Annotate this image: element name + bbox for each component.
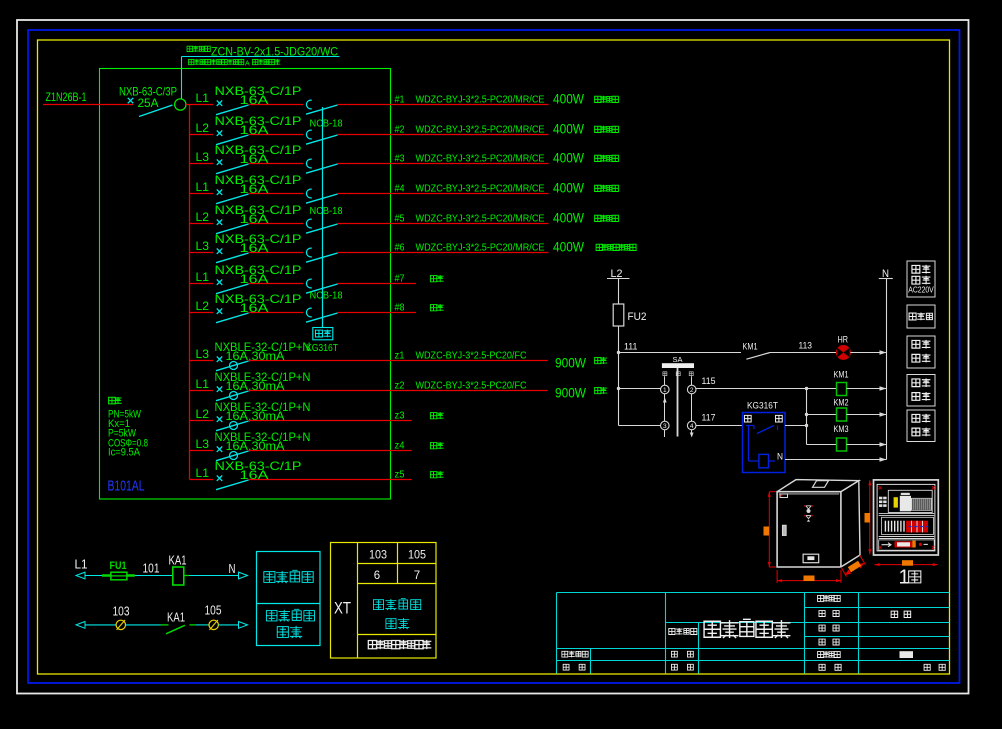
label load calculation summary	[108, 397, 148, 459]
wire branch z3 segment b	[249, 420, 412, 422]
bus N vertical	[886, 279, 888, 460]
svg-text:7: 7	[414, 570, 420, 582]
title label: drawing size	[819, 639, 839, 645]
title value: electrical	[891, 611, 911, 617]
terminal 103 (yellow)	[116, 620, 125, 630]
wire branch #7 segment c	[338, 283, 417, 285]
svg-text:XT: XT	[334, 599, 351, 618]
svg-text:1: 1	[899, 567, 910, 589]
svg-text:L1: L1	[196, 93, 210, 105]
svg-text:4: 4	[690, 423, 694, 430]
breaker QF3 NXB-63-C/1P 16A (branch #3)	[196, 143, 302, 174]
panel enclosure B101AL (green boundary box)	[100, 69, 391, 500]
wire branch #5 segment b	[249, 223, 304, 225]
function label box: manual control	[907, 375, 935, 407]
wire branch #8 segment b	[249, 312, 304, 314]
wire branch #1 segment b	[249, 104, 304, 106]
contactor NCB-18 pole (branch #6)	[306, 248, 338, 262]
wire to KM3 coil	[807, 444, 837, 446]
wire branch #6 segment a	[190, 252, 214, 254]
title label: review	[563, 664, 585, 670]
svg-text:z1: z1	[395, 350, 405, 361]
terminal 105 (yellow)	[209, 620, 218, 630]
label spare branch #8	[430, 305, 436, 311]
wire branch #3 segment c	[338, 163, 549, 165]
wire branch #5 segment a	[190, 223, 214, 225]
svg-text:KA1: KA1	[169, 554, 187, 568]
label load name branch #4	[595, 185, 601, 191]
svg-text:105: 105	[408, 550, 426, 562]
function label box: control power AC220V	[907, 261, 935, 297]
svg-text:#4: #4	[395, 183, 405, 194]
function label box: run indication	[907, 336, 935, 368]
panel corner marks	[879, 486, 936, 549]
wire L2 drop to fuse	[618, 279, 620, 305]
svg-text:#5: #5	[395, 213, 405, 224]
svg-text:FU2: FU2	[628, 311, 647, 323]
wire KM1 contact to node 113	[770, 352, 837, 354]
contactor NCB-18 pole (branch #5)	[306, 219, 338, 233]
breaker Qz2 NXBLE-32-C/1P+N 16A,30mA (branch z2)	[196, 370, 311, 401]
contactor NCB-18 pole (branch #2)	[306, 130, 338, 144]
svg-text:L1: L1	[75, 557, 88, 571]
wire branch #8 segment a	[190, 312, 214, 314]
wire branch #3 segment a	[190, 163, 214, 165]
title label: drafted	[671, 651, 693, 657]
title block grid	[557, 593, 950, 674]
wire line 101 left with arrow	[76, 572, 85, 579]
bus: vertical distribution busbar	[189, 105, 191, 480]
svg-text:NCB-18: NCB-18	[310, 118, 343, 129]
wire branch #6 segment b	[249, 252, 304, 254]
title value: project name (Mou Shang Ye Guang Chang)	[704, 621, 720, 637]
svg-text:L3: L3	[196, 439, 210, 451]
svg-text:WDZC-BYJ-3*2.5-PC20/MR/CE: WDZC-BYJ-3*2.5-PC20/MR/CE	[416, 94, 545, 105]
function label box: time control	[907, 410, 935, 442]
svg-text:N: N	[229, 562, 236, 576]
contactor NCB-18 pole (branch #7)	[306, 279, 338, 293]
wire branch z1 segment a	[190, 360, 214, 362]
wire incoming feeder Z1N26B-1	[43, 104, 133, 106]
label spare branch z3	[430, 413, 436, 419]
panel main switch row	[879, 490, 932, 512]
SA contact terminal 4	[687, 421, 696, 430]
wire to SA contact 3	[619, 425, 661, 427]
svg-text:113: 113	[799, 341, 813, 351]
svg-text:Ic=9.5A: Ic=9.5A	[108, 447, 141, 459]
coil KM1	[834, 369, 849, 395]
svg-text:KM1: KM1	[743, 341, 758, 351]
time controller tag box (shi-kong)	[313, 328, 333, 340]
label secondary wiring terminal description	[368, 641, 376, 649]
wire contactor control tie line	[322, 107, 324, 328]
coil KM3	[834, 424, 849, 451]
wire coil feed vertical	[806, 389, 808, 445]
svg-text:KM3: KM3	[834, 424, 849, 434]
svg-text:103: 103	[369, 550, 387, 562]
breaker QF8 NXB-63-C/1P 16A (branch #8)	[196, 292, 302, 323]
label spare branch #7	[430, 276, 436, 282]
title label: drawing no	[819, 625, 839, 631]
label undervoltage signal output (table)	[373, 599, 420, 630]
contact KA1 (NO)	[166, 610, 196, 633]
indicator lamp HR (run light)	[836, 335, 850, 360]
svg-text:400W: 400W	[553, 240, 584, 255]
title label: total pages	[819, 664, 841, 670]
svg-text:25A: 25A	[138, 96, 159, 110]
svg-text:N: N	[777, 451, 783, 461]
dimension: panel width	[875, 560, 938, 566]
wire branch #7 segment a	[190, 283, 214, 285]
wire KM2 coil to N	[847, 414, 887, 416]
svg-text:L1: L1	[196, 379, 210, 391]
wire to terminal 105	[196, 624, 209, 626]
cabinet bottom vent	[803, 554, 819, 563]
node N (control neutral)	[879, 268, 893, 280]
svg-text:#8: #8	[395, 302, 405, 313]
fuse FU1	[102, 560, 135, 580]
breaker Qz4 NXBLE-32-C/1P+N 16A,30mA (branch z4)	[196, 430, 311, 461]
node L2 (control supply phase)	[607, 268, 630, 280]
svg-text:NCB-18: NCB-18	[310, 290, 343, 301]
wire branch #5 segment c	[338, 223, 549, 225]
selector switch SA	[662, 355, 694, 376]
svg-text:117: 117	[702, 412, 716, 422]
dimension: panel height	[865, 480, 872, 554]
label load name branch #2	[595, 126, 601, 132]
svg-text:#3: #3	[395, 153, 405, 164]
svg-text:101: 101	[143, 562, 160, 576]
wire branch #1 segment a	[190, 104, 214, 106]
label quantity: 1 unit	[899, 567, 921, 589]
svg-text:#2: #2	[395, 124, 405, 135]
svg-text:WDZC-BYJ-3*2.5-PC20/FC: WDZC-BYJ-3*2.5-PC20/FC	[416, 350, 527, 361]
title label: design stage	[818, 595, 824, 601]
breaker Qz5 NXB-63-C/1P 16A (branch z5)	[196, 459, 302, 490]
panel mid rail lines	[879, 514, 935, 539]
title label: specialty	[819, 611, 839, 617]
breaker QF6 NXB-63-C/1P 16A (branch #6)	[196, 232, 302, 263]
label load name branch #5	[595, 215, 601, 221]
wire time relay output (chu) to coil feed	[785, 425, 807, 427]
svg-text:400W: 400W	[553, 151, 584, 166]
svg-text:z5: z5	[395, 469, 405, 480]
panel MCB row	[882, 517, 934, 534]
label spare branch z4	[430, 443, 436, 449]
svg-text:KG316T: KG316T	[306, 343, 338, 354]
contactor NCB-18 pole (branch #1)	[306, 100, 338, 114]
contactor NCB-18 pole (branch #8)	[306, 308, 338, 322]
wire branch z3 segment a	[190, 420, 214, 422]
svg-text:SA: SA	[673, 355, 683, 364]
breaker QF2 NXB-63-C/1P 16A (branch #2)	[196, 114, 302, 145]
coil KM2	[834, 397, 849, 421]
title label: compiled by unit	[818, 652, 824, 658]
svg-text:#7: #7	[395, 273, 405, 284]
SA contact terminal 2	[687, 385, 696, 394]
svg-text:FU1: FU1	[110, 560, 127, 572]
contact KM1 (NO auxiliary)	[743, 341, 771, 359]
svg-text:105: 105	[205, 603, 222, 617]
wire time relay N return	[785, 459, 887, 461]
SA contact terminal 1	[661, 385, 670, 394]
label load name branch #3	[595, 155, 601, 161]
label load name branch #1	[595, 96, 601, 102]
wire branch #3 segment b	[249, 163, 304, 165]
wire KM1 coil to N	[847, 388, 887, 390]
svg-text:L1: L1	[196, 182, 210, 194]
breaker QF4 NXB-63-C/1P 16A (branch #4)	[196, 173, 302, 204]
svg-text:WDZC-BYJ-3*2.5-PC20/MR/CE: WDZC-BYJ-3*2.5-PC20/MR/CE	[416, 124, 545, 135]
svg-text:400W: 400W	[553, 181, 584, 196]
svg-text:1: 1	[663, 387, 667, 394]
title label: project lead	[562, 651, 568, 657]
svg-text:B101AL: B101AL	[108, 477, 145, 494]
svg-text:KM1: KM1	[834, 369, 849, 379]
wire node 111 to KM1 contact	[619, 352, 742, 354]
svg-text:L2: L2	[196, 409, 210, 421]
wire to KM2 coil	[807, 414, 837, 416]
wire coil to N with arrow	[184, 575, 189, 577]
svg-text:AC220V: AC220V	[908, 286, 934, 295]
label load socket branch z1	[595, 357, 601, 363]
dimension: cabinet height	[764, 492, 777, 567]
label load name branch #6	[596, 244, 602, 250]
wire 117: SA-4 to time relay input	[696, 425, 743, 427]
label load socket branch z2	[595, 387, 601, 393]
svg-text:KA1: KA1	[167, 610, 185, 624]
svg-text:L1: L1	[196, 272, 210, 284]
wire HR to N bus	[850, 352, 886, 354]
breaker QF main NXB-63-C/3P 25A	[119, 85, 177, 117]
wire branch z5 segment a	[190, 479, 214, 481]
svg-text:115: 115	[702, 376, 716, 386]
node: main junction (circle)	[175, 99, 186, 110]
panel front view outline	[874, 480, 939, 555]
svg-text:L3: L3	[196, 152, 210, 164]
terminal table XT	[331, 543, 437, 659]
svg-text:2: 2	[690, 387, 694, 394]
svg-text:L2: L2	[196, 301, 210, 313]
wire branch #4 segment c	[338, 193, 549, 195]
svg-text:WDZC-BYJ-3*2.5-PC20/MR/CE: WDZC-BYJ-3*2.5-PC20/MR/CE	[416, 153, 545, 164]
svg-text:z4: z4	[395, 440, 405, 451]
title value: unit stamp	[900, 651, 914, 658]
svg-text:#6: #6	[395, 242, 405, 253]
wire branch z4 segment b	[249, 450, 412, 452]
svg-text:L3: L3	[196, 349, 210, 361]
svg-text:400W: 400W	[553, 92, 584, 107]
wire KM3 coil to N	[847, 444, 887, 446]
cable label ZCN-BV-2x1.5-JDG20/WC with leader	[182, 45, 340, 99]
cabinet outline (3D isometric view)	[777, 480, 860, 567]
svg-text:L2: L2	[196, 212, 210, 224]
svg-text:#1: #1	[395, 94, 405, 105]
svg-text:Z1N26B-1: Z1N26B-1	[46, 92, 87, 104]
wire branch z5 segment b	[249, 479, 412, 481]
wire branch #4 segment a	[190, 193, 214, 195]
svg-text:z2: z2	[395, 380, 405, 391]
svg-text:HR: HR	[838, 335, 849, 345]
svg-text:KM2: KM2	[834, 397, 849, 407]
svg-text:111: 111	[624, 341, 638, 351]
svg-text:400W: 400W	[553, 122, 584, 137]
svg-text:900W: 900W	[555, 356, 586, 371]
function box: undervoltage trip / undervoltage signal output	[257, 552, 321, 646]
wire branch #8 segment c	[338, 312, 417, 314]
wire signal line left arrow	[76, 622, 85, 629]
contactor NCB-18 pole (branch #3)	[306, 159, 338, 173]
wire to SA contact 1	[619, 388, 661, 390]
panel bottom terminal row	[879, 540, 935, 550]
svg-text:L3: L3	[196, 241, 210, 253]
cabinet door handle	[783, 525, 787, 535]
breaker QF1 NXB-63-C/1P 16A (branch #1)	[196, 84, 302, 115]
wire terminal 103 to KA1 contact	[126, 624, 161, 626]
svg-text:A: A	[245, 60, 250, 67]
wire branch z2 segment a	[190, 390, 214, 392]
cabinet indicator symbols	[804, 505, 813, 522]
svg-text:WDZC-BYJ-3*2.5-PC20/MR/CE: WDZC-BYJ-3*2.5-PC20/MR/CE	[416, 242, 545, 253]
wire branch #4 segment b	[249, 193, 304, 195]
svg-text:L2: L2	[196, 123, 210, 135]
svg-text:WDZC-BYJ-3*2.5-PC20/MR/CE: WDZC-BYJ-3*2.5-PC20/MR/CE	[416, 183, 545, 194]
breaker QF7 NXB-63-C/1P 16A (branch #7)	[196, 263, 302, 294]
dimension: cabinet depth	[841, 555, 866, 576]
wire branch #2 segment b	[249, 134, 304, 136]
wire branch #6 segment c	[338, 252, 549, 254]
dimension: cabinet width	[777, 570, 841, 583]
title value: page no	[924, 664, 945, 670]
svg-text:z3: z3	[395, 410, 405, 421]
cabinet lock	[780, 494, 788, 498]
svg-text:L1: L1	[196, 468, 210, 480]
breaker Qz3 NXBLE-32-C/1P+N 16A,30mA (branch z3)	[196, 400, 311, 431]
contactor NCB-18 pole (branch #4)	[306, 189, 338, 203]
fuse FU2	[613, 304, 624, 326]
svg-text:3: 3	[663, 423, 667, 430]
svg-text:NCB-18: NCB-18	[310, 206, 343, 217]
note: feeder source description (green small text)	[189, 59, 281, 67]
wire terminal 105 out with arrow	[218, 624, 238, 626]
title label: checked	[671, 664, 693, 670]
label spare branch z5	[430, 472, 436, 478]
svg-text:6: 6	[374, 570, 380, 582]
svg-text:WDZC-BYJ-3*2.5-PC20/FC: WDZC-BYJ-3*2.5-PC20/FC	[416, 380, 527, 391]
breaker QF5 NXB-63-C/1P 16A (branch #5)	[196, 203, 302, 234]
svg-text:WDZC-BYJ-3*2.5-PC20/MR/CE: WDZC-BYJ-3*2.5-PC20/MR/CE	[416, 213, 545, 224]
wire left drop from node 111	[618, 353, 620, 426]
wire branch #1 segment c	[338, 104, 549, 106]
svg-text:900W: 900W	[555, 386, 586, 401]
time relay KG316T (box)	[743, 401, 786, 473]
relay coil KA1	[169, 554, 187, 585]
wire junction to bus	[186, 104, 190, 106]
title label: project name	[669, 628, 675, 634]
wire branch z2 segment b	[249, 390, 548, 392]
breaker Qz1 NXBLE-32-C/1P+N 16A,30mA (branch z1)	[196, 340, 311, 371]
wire branch #2 segment c	[338, 134, 549, 136]
svg-text:400W: 400W	[553, 211, 584, 226]
wire 115: SA-2 to KM1 coil	[696, 388, 837, 390]
SA pole links	[663, 368, 694, 438]
wire branch z4 segment a	[190, 450, 214, 452]
wire fuse to relay coil	[135, 575, 173, 577]
wire branch #2 segment a	[190, 134, 214, 136]
wire fuse to node 111	[618, 326, 620, 353]
svg-text:KG316T: KG316T	[747, 401, 778, 411]
function label box: fuse	[907, 305, 935, 328]
SA contact terminal 3	[661, 421, 670, 430]
wire branch #7 segment b	[249, 283, 304, 285]
wire branch z1 segment b	[249, 360, 548, 362]
svg-text:103: 103	[113, 604, 130, 618]
